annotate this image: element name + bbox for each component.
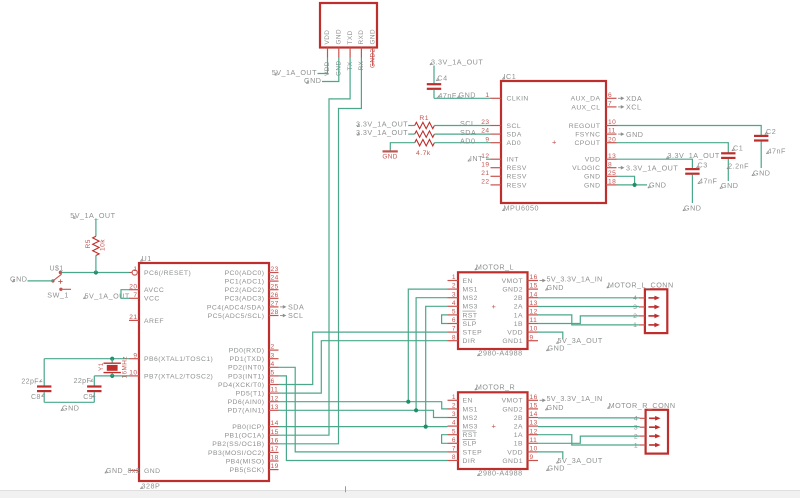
svg-text:GND: GND bbox=[584, 174, 600, 181]
svg-text:GND: GND bbox=[304, 76, 321, 85]
svg-text:17: 17 bbox=[271, 446, 279, 453]
svg-text:10k: 10k bbox=[99, 239, 106, 251]
svg-text:3: 3 bbox=[452, 411, 456, 418]
svg-text:SW_1: SW_1 bbox=[47, 291, 69, 300]
svg-text:3.3V_1A_OUT: 3.3V_1A_OUT bbox=[668, 151, 720, 160]
svg-text:RST: RST bbox=[463, 432, 478, 439]
svg-text:PB5(SCK): PB5(SCK) bbox=[230, 467, 265, 474]
svg-text:GND: GND bbox=[649, 181, 666, 190]
svg-text:PD6(AIN0): PD6(AIN0) bbox=[228, 399, 265, 406]
svg-text:11: 11 bbox=[608, 128, 616, 135]
svg-text:PB2(SS/OC1B): PB2(SS/OC1B) bbox=[212, 441, 264, 448]
svg-text:11: 11 bbox=[530, 317, 538, 324]
svg-text:21: 21 bbox=[481, 170, 489, 177]
svg-text:2: 2 bbox=[452, 283, 456, 290]
svg-text:STEP: STEP bbox=[463, 330, 483, 337]
svg-text:GND2: GND2 bbox=[369, 48, 376, 68]
svg-text:47nF: 47nF bbox=[768, 146, 786, 155]
svg-text:CLKIN: CLKIN bbox=[507, 96, 529, 103]
svg-text:2: 2 bbox=[633, 313, 637, 320]
svg-text:10: 10 bbox=[530, 446, 538, 453]
svg-text:16: 16 bbox=[530, 274, 538, 281]
svg-text:12: 12 bbox=[530, 309, 538, 316]
svg-text:6: 6 bbox=[452, 317, 456, 324]
svg-text:13: 13 bbox=[530, 300, 538, 307]
svg-text:REGOUT: REGOUT bbox=[569, 123, 601, 130]
svg-text:GND: GND bbox=[547, 403, 564, 412]
svg-text:PD5(T1): PD5(T1) bbox=[236, 391, 265, 398]
svg-text:FSYNC: FSYNC bbox=[575, 132, 600, 139]
svg-text:2B: 2B bbox=[514, 415, 523, 422]
svg-text:GND2: GND2 bbox=[502, 287, 523, 294]
svg-text:C8: C8 bbox=[31, 394, 41, 401]
svg-text:VDD: VDD bbox=[585, 157, 601, 164]
svg-text:9: 9 bbox=[530, 334, 534, 341]
svg-text:16MHz: 16MHz bbox=[122, 356, 129, 379]
svg-text:SCL: SCL bbox=[507, 123, 522, 130]
svg-text:13: 13 bbox=[608, 153, 616, 160]
svg-text:VCC: VCC bbox=[144, 296, 160, 303]
svg-text:Y1: Y1 bbox=[98, 362, 105, 371]
svg-text:GND1: GND1 bbox=[502, 338, 523, 345]
svg-text:22pF: 22pF bbox=[74, 378, 92, 385]
svg-text:3.3V_1A_OUT: 3.3V_1A_OUT bbox=[626, 164, 678, 173]
svg-text:MS2: MS2 bbox=[463, 415, 478, 422]
svg-text:PC3(ADC3): PC3(ADC3) bbox=[225, 296, 265, 303]
svg-text:TXD: TXD bbox=[347, 30, 354, 44]
svg-text:27: 27 bbox=[271, 301, 279, 308]
svg-text:VMOT: VMOT bbox=[502, 398, 523, 405]
svg-text:AUX_DA: AUX_DA bbox=[571, 96, 601, 103]
svg-text:MOTOR_R_CONN: MOTOR_R_CONN bbox=[609, 401, 676, 410]
svg-text:7: 7 bbox=[452, 446, 456, 453]
svg-text:3: 3 bbox=[271, 352, 275, 359]
svg-text:5: 5 bbox=[452, 428, 456, 435]
svg-text:AUX_CL: AUX_CL bbox=[571, 104, 600, 111]
svg-text:PB0(ICP): PB0(ICP) bbox=[232, 424, 264, 431]
svg-text:PC1(ADC1): PC1(ADC1) bbox=[225, 279, 265, 286]
svg-text:MS1: MS1 bbox=[463, 287, 478, 294]
svg-text:1: 1 bbox=[633, 322, 637, 329]
svg-text:18: 18 bbox=[271, 455, 279, 462]
svg-text:GND: GND bbox=[684, 204, 701, 213]
svg-text:AVCC: AVCC bbox=[144, 287, 164, 294]
svg-text:SDA: SDA bbox=[507, 132, 522, 139]
svg-text:6: 6 bbox=[271, 378, 275, 385]
svg-text:GND: GND bbox=[382, 153, 398, 160]
svg-text:PC5(ADC5/SCL): PC5(ADC5/SCL) bbox=[208, 313, 265, 320]
svg-text:4: 4 bbox=[634, 416, 638, 423]
svg-text:14: 14 bbox=[271, 420, 279, 427]
svg-text:PD0(RXD): PD0(RXD) bbox=[229, 348, 265, 355]
svg-text:2.2nF: 2.2nF bbox=[728, 162, 749, 171]
svg-text:7: 7 bbox=[608, 101, 612, 108]
svg-text:15: 15 bbox=[530, 403, 538, 410]
svg-text:12: 12 bbox=[530, 428, 538, 435]
svg-text:PB1(OC1A): PB1(OC1A) bbox=[225, 433, 265, 440]
svg-text:MS3: MS3 bbox=[463, 424, 478, 431]
svg-text:25: 25 bbox=[271, 283, 279, 290]
svg-text:20: 20 bbox=[608, 136, 616, 143]
svg-text:18: 18 bbox=[608, 179, 616, 186]
svg-text:XCL: XCL bbox=[626, 103, 641, 112]
svg-text:RESV: RESV bbox=[507, 174, 527, 181]
svg-text:2: 2 bbox=[271, 344, 275, 351]
svg-text:RESV: RESV bbox=[507, 182, 527, 189]
svg-text:7: 7 bbox=[452, 326, 456, 333]
svg-text:C2: C2 bbox=[766, 127, 776, 136]
svg-text:4.7k: 4.7k bbox=[416, 150, 431, 157]
svg-text:2: 2 bbox=[634, 433, 638, 440]
svg-text:PB7(XTAL2/TOSC2): PB7(XTAL2/TOSC2) bbox=[144, 373, 213, 380]
svg-text:RST: RST bbox=[463, 312, 478, 319]
svg-text:GND: GND bbox=[144, 468, 160, 475]
svg-text:EN: EN bbox=[463, 278, 473, 285]
svg-text:R1: R1 bbox=[419, 115, 429, 122]
svg-text:U1: U1 bbox=[142, 254, 152, 263]
svg-text:16: 16 bbox=[530, 394, 538, 401]
svg-text:C4: C4 bbox=[437, 73, 447, 82]
svg-text:3.3V_1A_OUT: 3.3V_1A_OUT bbox=[356, 128, 408, 137]
svg-text:PD2(INT0): PD2(INT0) bbox=[228, 365, 265, 372]
svg-text:DIR: DIR bbox=[463, 458, 476, 465]
svg-text:PD1(TXD): PD1(TXD) bbox=[230, 356, 265, 363]
svg-text:+: + bbox=[552, 137, 557, 146]
svg-text:3.3V_1A_OUT: 3.3V_1A_OUT bbox=[431, 58, 483, 67]
svg-text:22pF: 22pF bbox=[21, 378, 39, 385]
svg-text:2A: 2A bbox=[514, 304, 523, 311]
svg-text:MS2: MS2 bbox=[463, 295, 478, 302]
svg-text:6: 6 bbox=[608, 92, 612, 99]
svg-text:GND1: GND1 bbox=[502, 458, 523, 465]
svg-text:PD4(XCK/T0): PD4(XCK/T0) bbox=[218, 382, 265, 389]
svg-text:GND2: GND2 bbox=[502, 406, 523, 413]
svg-text:1B: 1B bbox=[514, 321, 523, 328]
svg-text:5: 5 bbox=[452, 309, 456, 316]
svg-text:MS3: MS3 bbox=[463, 304, 478, 311]
svg-text:EN: EN bbox=[463, 398, 473, 405]
svg-text:GND: GND bbox=[336, 29, 343, 45]
svg-text:INT: INT bbox=[470, 154, 483, 163]
svg-text:PC0(ADC0): PC0(ADC0) bbox=[225, 270, 265, 277]
svg-text:12: 12 bbox=[271, 395, 279, 402]
svg-text:MOTOR_L: MOTOR_L bbox=[476, 263, 514, 272]
svg-text:VMOT: VMOT bbox=[502, 278, 523, 285]
svg-text:GND: GND bbox=[548, 463, 565, 472]
svg-text:6: 6 bbox=[452, 437, 456, 444]
svg-text:2B: 2B bbox=[514, 295, 523, 302]
svg-text:2980-A4988: 2980-A4988 bbox=[479, 468, 523, 477]
svg-text:11: 11 bbox=[271, 387, 279, 394]
svg-text:PB6(XTAL1/TOSC1): PB6(XTAL1/TOSC1) bbox=[144, 356, 213, 363]
svg-text:SLP: SLP bbox=[463, 441, 477, 448]
svg-text:3: 3 bbox=[634, 425, 638, 432]
svg-text:GND: GND bbox=[584, 182, 600, 189]
svg-text:25: 25 bbox=[608, 170, 616, 177]
svg-text:AREF: AREF bbox=[144, 318, 164, 325]
svg-text:19: 19 bbox=[271, 463, 279, 470]
svg-text:IC1: IC1 bbox=[504, 72, 517, 81]
svg-text:11: 11 bbox=[530, 437, 538, 444]
svg-text:GND: GND bbox=[626, 130, 643, 139]
svg-text:3: 3 bbox=[633, 304, 637, 311]
svg-text:C3: C3 bbox=[698, 161, 708, 170]
svg-text:8: 8 bbox=[608, 161, 612, 168]
svg-text:9: 9 bbox=[530, 454, 534, 461]
svg-text:CPOUT: CPOUT bbox=[574, 140, 600, 147]
svg-text:47nF: 47nF bbox=[699, 177, 717, 186]
svg-text:13: 13 bbox=[271, 404, 279, 411]
svg-text:2: 2 bbox=[452, 403, 456, 410]
svg-text:INT: INT bbox=[507, 157, 519, 164]
svg-text:2A: 2A bbox=[514, 424, 523, 431]
svg-text:PD3(INT1): PD3(INT1) bbox=[228, 373, 265, 380]
svg-text:1: 1 bbox=[634, 442, 638, 449]
svg-text:GND_8x2: GND_8x2 bbox=[106, 468, 140, 475]
svg-text:328P: 328P bbox=[142, 482, 161, 491]
svg-text:15: 15 bbox=[271, 429, 279, 436]
svg-text:PC2(ADC2): PC2(ADC2) bbox=[225, 287, 265, 294]
svg-text:8: 8 bbox=[452, 334, 456, 341]
svg-text:24: 24 bbox=[271, 275, 279, 282]
svg-text:VDD: VDD bbox=[507, 330, 523, 337]
svg-text:28: 28 bbox=[271, 309, 279, 316]
svg-text:3: 3 bbox=[452, 291, 456, 298]
svg-text:MOTOR_R: MOTOR_R bbox=[476, 383, 515, 392]
svg-text:GND: GND bbox=[10, 275, 27, 284]
svg-text:1B: 1B bbox=[514, 441, 523, 448]
svg-text:4: 4 bbox=[452, 420, 456, 427]
svg-text:MOTOR_L_CONN: MOTOR_L_CONN bbox=[608, 281, 674, 290]
svg-text:SCL: SCL bbox=[288, 311, 303, 320]
svg-text:PB3(MOSI/OC2): PB3(MOSI/OC2) bbox=[208, 450, 264, 457]
svg-text:STEP: STEP bbox=[463, 449, 483, 456]
svg-text:C1: C1 bbox=[733, 144, 743, 153]
svg-text:+: + bbox=[492, 422, 497, 431]
svg-text:10: 10 bbox=[608, 119, 616, 126]
svg-text:GND: GND bbox=[62, 403, 79, 412]
svg-text:VDD: VDD bbox=[507, 449, 523, 456]
svg-text:2980-A4988: 2980-A4988 bbox=[479, 349, 523, 358]
svg-text:1A: 1A bbox=[514, 432, 523, 439]
svg-text:4: 4 bbox=[452, 300, 456, 307]
svg-text:MS1: MS1 bbox=[463, 406, 478, 413]
svg-text:AD0: AD0 bbox=[460, 136, 475, 145]
svg-text:RXD: RXD bbox=[358, 30, 365, 45]
svg-text:26: 26 bbox=[271, 292, 279, 299]
svg-text:10: 10 bbox=[530, 326, 538, 333]
svg-text:1: 1 bbox=[452, 274, 456, 281]
svg-text:14: 14 bbox=[530, 411, 538, 418]
svg-text:PD7(AIN1): PD7(AIN1) bbox=[228, 408, 265, 415]
svg-text:22: 22 bbox=[481, 179, 489, 186]
svg-text:5V_1A_OUT: 5V_1A_OUT bbox=[70, 211, 115, 220]
svg-text:RESV: RESV bbox=[507, 165, 527, 172]
svg-text:PB4(MISO): PB4(MISO) bbox=[226, 458, 265, 465]
svg-text:PC6(/RESET): PC6(/RESET) bbox=[144, 270, 191, 277]
svg-text:13: 13 bbox=[530, 420, 538, 427]
svg-text:1A: 1A bbox=[514, 312, 523, 319]
svg-text:AD0: AD0 bbox=[507, 140, 522, 147]
svg-text:14: 14 bbox=[530, 291, 538, 298]
svg-text:VLOGIC: VLOGIC bbox=[572, 165, 600, 172]
svg-text:4: 4 bbox=[633, 295, 637, 302]
svg-text:1: 1 bbox=[452, 394, 456, 401]
svg-text:U$1: U$1 bbox=[50, 265, 64, 272]
svg-text:GND: GND bbox=[548, 344, 565, 353]
svg-text:47nF: 47nF bbox=[438, 91, 456, 100]
svg-text:4: 4 bbox=[271, 361, 275, 368]
svg-text:SLP: SLP bbox=[463, 321, 477, 328]
svg-text:5: 5 bbox=[271, 370, 275, 377]
svg-text:PC4(ADC4/SDA): PC4(ADC4/SDA) bbox=[207, 304, 265, 311]
svg-text:VDD: VDD bbox=[324, 30, 331, 45]
svg-text:R5: R5 bbox=[85, 239, 92, 248]
svg-text:GND: GND bbox=[547, 283, 564, 292]
svg-text:5V_1A_OUT: 5V_1A_OUT bbox=[85, 291, 130, 300]
svg-text:23: 23 bbox=[271, 266, 279, 273]
svg-text:+: + bbox=[492, 302, 497, 311]
svg-text:DIR: DIR bbox=[463, 338, 476, 345]
svg-text:GND: GND bbox=[369, 29, 376, 45]
svg-text:8: 8 bbox=[452, 454, 456, 461]
svg-text:GND: GND bbox=[459, 91, 476, 100]
svg-text:GND: GND bbox=[721, 181, 738, 190]
svg-text:GND: GND bbox=[753, 168, 770, 177]
svg-text:16: 16 bbox=[271, 437, 279, 444]
svg-text:MPU6050: MPU6050 bbox=[504, 204, 539, 213]
svg-text:15: 15 bbox=[530, 283, 538, 290]
svg-text:C9: C9 bbox=[83, 394, 93, 401]
